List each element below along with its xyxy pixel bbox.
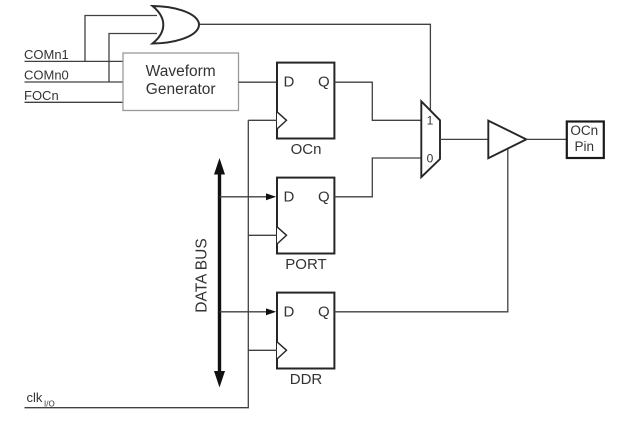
flip-flop PORT [277,178,334,273]
svg-text:D: D [284,303,295,320]
flip-flop OCn [277,63,334,158]
wire waveform generator to OCn D [239,81,278,83]
mux [421,101,440,177]
svg-text:Waveform: Waveform [146,63,216,80]
svg-text:FOCn: FOCn [24,88,59,103]
or-gate U1 [153,6,200,44]
wire COMn0 to OR bottom input [25,34,158,83]
wire PORT Q to mux input 0 [334,158,421,197]
waveform generator box [123,53,239,111]
svg-text:D: D [284,188,295,205]
wire buffer to OCn pin [526,138,566,140]
wire clk_io vertical net [25,120,278,407]
svg-text:Pin: Pin [574,139,594,154]
svg-text:I/O: I/O [44,399,55,408]
svg-text:COMn0: COMn0 [24,68,69,83]
svg-text:Q: Q [318,303,330,320]
svg-text:DATA BUS: DATA BUS [194,238,211,312]
flip-flop DDR [277,293,334,388]
label clk_io [27,390,55,408]
svg-text:COMn1: COMn1 [24,47,69,62]
svg-text:0: 0 [427,151,434,165]
svg-text:Q: Q [318,73,330,90]
data bus arrow [214,158,225,388]
svg-text:1: 1 [427,114,434,128]
svg-text:D: D [284,73,295,90]
wire data bus to PORT D (arrow) [220,193,277,200]
wire data bus to DDR D (arrow) [220,308,277,315]
wire DDR Q to buffer enable [334,149,507,312]
svg-text:clk: clk [27,390,43,405]
buffer (pin driver) [488,121,526,159]
OCn pin box [567,122,604,159]
wire OR output to mux select [200,24,431,110]
wire OCn Q to mux input 1 [334,82,421,120]
wire COMn1 to OR top input [25,16,158,62]
svg-text:OCn: OCn [570,123,598,138]
svg-text:PORT: PORT [285,256,326,273]
svg-text:DDR: DDR [290,371,323,388]
wire mux output to buffer [440,138,488,140]
svg-text:Generator: Generator [146,81,216,98]
wire FOCn [25,101,124,103]
svg-text:Q: Q [318,188,330,205]
svg-text:OCn: OCn [291,141,322,158]
